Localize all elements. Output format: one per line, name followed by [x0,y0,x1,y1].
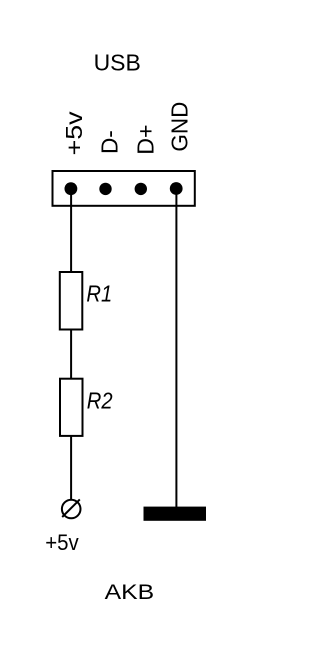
connector pin 3 dot [135,183,147,195]
resistor R1 body [60,272,83,330]
wire pin4 to battery bar [175,189,177,507]
svg-text:R2: R2 [87,387,113,413]
svg-text:USB: USB [94,50,141,76]
svg-text:D+: D+ [132,125,158,155]
resistor R2 body [60,379,83,436]
wire R1 to R2 [70,329,72,379]
wire pin1 to R1 [70,189,72,272]
terminal (screw) circle [62,500,81,519]
svg-text:GND: GND [166,102,192,152]
svg-text:R1: R1 [86,281,112,307]
connector X1 body [53,171,195,206]
battery bar (AKB terminal) [144,507,207,521]
svg-text:AKB: AKB [105,579,155,604]
svg-text:+5v: +5v [61,111,87,156]
terminal slash [62,499,80,517]
wire R2 to terminal [70,436,72,500]
connector pin 2 dot [99,183,111,195]
connector pin 1 dot [65,182,78,195]
svg-text:+5v: +5v [45,530,79,555]
svg-text:D-: D- [97,130,123,154]
connector pin 4 dot [170,182,183,195]
